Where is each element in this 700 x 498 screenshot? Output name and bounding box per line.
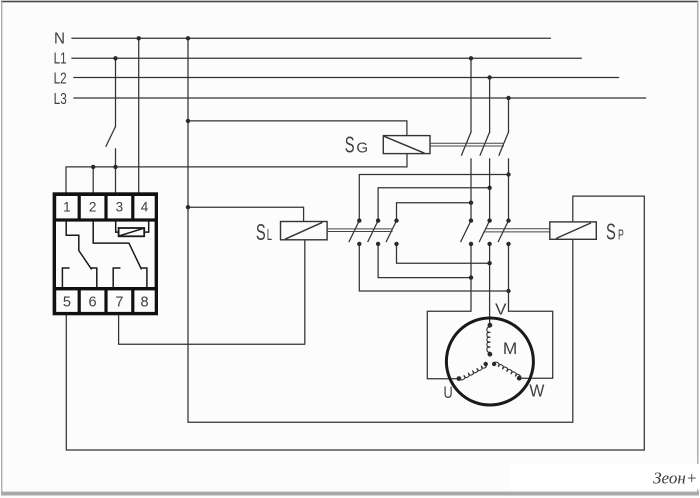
svg-text:S: S xyxy=(606,219,616,245)
svg-text:3: 3 xyxy=(116,199,124,214)
svg-text:V: V xyxy=(495,301,507,318)
svg-text:S: S xyxy=(256,219,266,245)
svg-text:N: N xyxy=(54,30,65,47)
svg-text:W: W xyxy=(529,381,544,401)
svg-text:8: 8 xyxy=(140,294,148,310)
svg-text:S: S xyxy=(345,132,355,158)
svg-text:4: 4 xyxy=(141,199,149,214)
svg-text:6: 6 xyxy=(89,294,97,310)
svg-text:L: L xyxy=(267,227,272,244)
svg-text:G: G xyxy=(356,140,368,157)
svg-text:7: 7 xyxy=(115,294,123,310)
svg-text:Зеон+: Зеон+ xyxy=(653,469,697,488)
svg-text:1: 1 xyxy=(63,199,71,214)
svg-text:M: M xyxy=(503,339,517,358)
svg-text:P: P xyxy=(618,228,624,244)
svg-text:L1: L1 xyxy=(54,51,67,68)
svg-text:2: 2 xyxy=(89,199,97,214)
svg-text:L3: L3 xyxy=(54,91,67,108)
svg-text:U: U xyxy=(444,384,453,402)
svg-text:5: 5 xyxy=(63,294,71,310)
svg-text:L2: L2 xyxy=(54,71,67,88)
